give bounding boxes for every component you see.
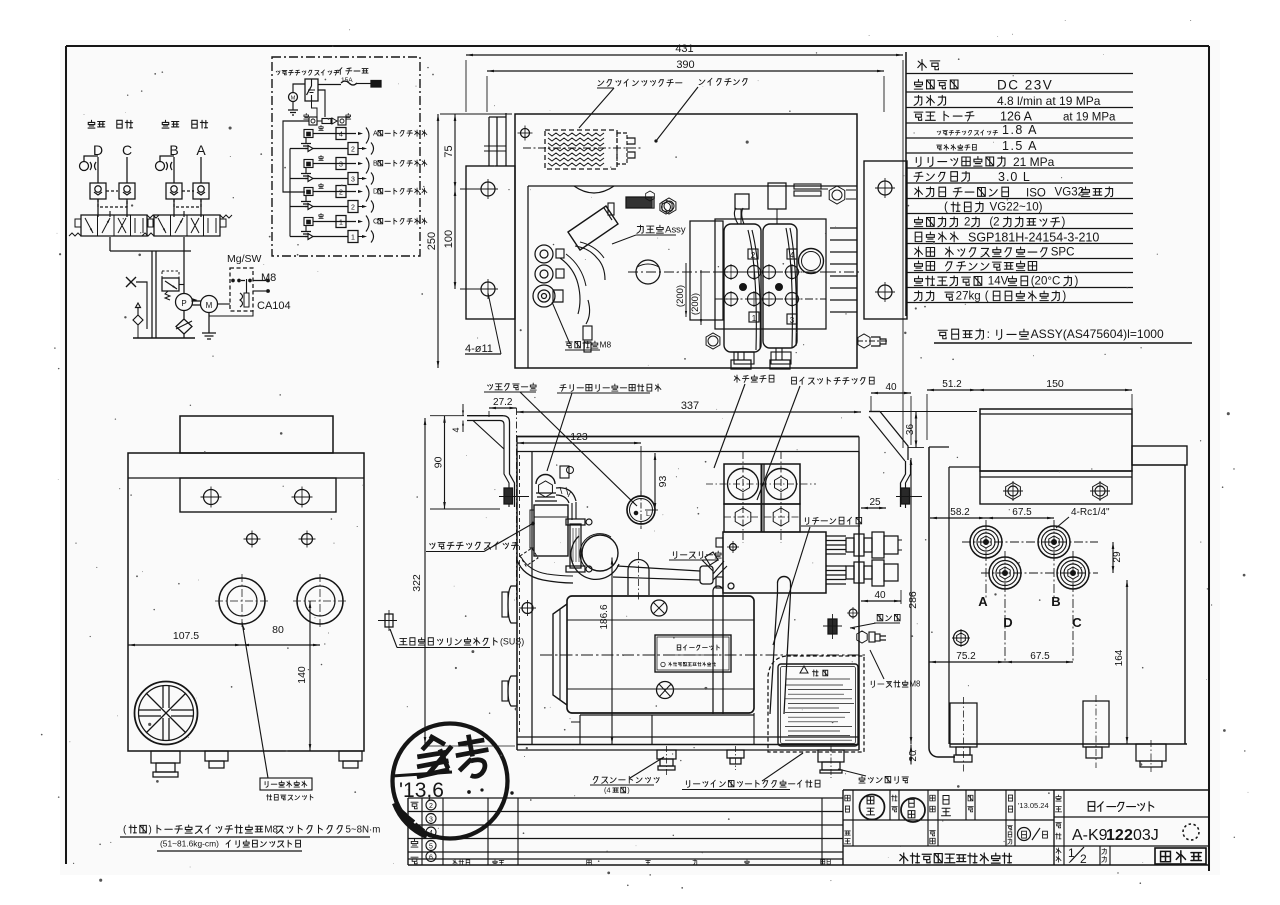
motor ground: [202, 313, 216, 340]
designer name: [942, 796, 951, 816]
revision table left labels: [411, 802, 418, 864]
label air breather: [547, 384, 661, 471]
hinge lower: [502, 676, 517, 706]
small bolt right view: [952, 629, 970, 647]
valve body 1-2 (plan): [724, 224, 761, 352]
right view top cap: [980, 409, 1132, 471]
pilot lines (dashed): [98, 191, 201, 207]
manifold block front: [705, 532, 826, 593]
drain fitting (plan right): [857, 334, 889, 348]
left plate bolt holes: [478, 179, 498, 299]
tab slots (plan bottom): [734, 352, 791, 364]
port A: [970, 526, 1002, 558]
door edge dashed: [519, 455, 521, 735]
junction row: [309, 117, 346, 125]
hose loop: [571, 534, 619, 580]
left view bracket strip: [180, 478, 336, 512]
relay rows: [290, 125, 427, 242]
company name: [900, 853, 1012, 863]
cord grommet right: [293, 574, 347, 628]
electrical labels: [276, 68, 368, 84]
wall flange bolt: [378, 610, 397, 631]
right view foot right: [1136, 740, 1166, 772]
hose lower run: [517, 557, 573, 583]
magnetic contactor switch: [293, 79, 318, 101]
dim 140: [296, 601, 330, 751]
port C: [1057, 557, 1089, 589]
caution plate dashed outline: [768, 656, 864, 752]
caution plate: [778, 664, 858, 746]
solenoid tubes (plan): [731, 183, 790, 369]
valve numbers: [748, 249, 797, 325]
left view feet: [151, 751, 362, 777]
solenoid valve block right: [142, 215, 232, 236]
dim 29: [1112, 542, 1123, 573]
right view foot middle: [1083, 695, 1109, 768]
left view small bolts: [244, 531, 316, 548]
left bus wire: [283, 121, 309, 192]
scale 1/2: [1068, 846, 1087, 866]
note text: [120, 824, 380, 851]
left mounting bracket: [467, 416, 529, 507]
terminal wires: [560, 254, 592, 352]
foot middle: [727, 746, 744, 770]
dim 250: [426, 114, 513, 368]
title block small labels: [844, 795, 1106, 862]
motor base: [571, 713, 754, 744]
pressure bus lines: [110, 237, 191, 338]
return pipe: [707, 586, 729, 714]
hoses (plan): [748, 228, 796, 350]
top view right flange plate: [864, 161, 907, 319]
dim 75.2: [929, 651, 1005, 663]
tank side ribs (plan): [830, 228, 857, 312]
electrical schematic enclosure: [272, 57, 420, 256]
hex bolt (plan): [660, 200, 672, 214]
spec table border: [905, 52, 907, 316]
tank line: [133, 334, 195, 338]
label chromate: [590, 757, 664, 794]
dim 431: [466, 43, 903, 448]
front cabinet body: [517, 452, 859, 751]
revision bottom row marks: [453, 859, 830, 865]
dim 322: [411, 418, 515, 746]
right mounting bracket: [869, 412, 922, 509]
dim 40 top right: [871, 382, 911, 445]
oil level gauge: [627, 491, 655, 529]
sanko stamp circle: [393, 724, 508, 839]
fittings top (plan): [794, 184, 856, 204]
valve drain lines: [98, 199, 201, 217]
pilot check valves: [90, 183, 209, 199]
label caution plate attach: [682, 753, 820, 790]
dim 93: [645, 453, 669, 510]
stamp eida: [901, 798, 925, 822]
label 4-Rc1/4: [1056, 507, 1110, 528]
closed port X: [126, 277, 147, 329]
dim 390: [487, 59, 884, 112]
earth cord connector: [700, 561, 727, 584]
dim 107.5: [128, 630, 242, 646]
port B: [1038, 526, 1070, 558]
label level gauge: [484, 383, 637, 506]
breather dome (plan): [574, 186, 614, 193]
tank top bolt: [518, 126, 533, 141]
hinge upper: [502, 586, 517, 623]
breather filter small: [133, 303, 143, 338]
wire to junction: [304, 90, 351, 119]
rectifier assy (plan): [568, 203, 618, 280]
motor M: [193, 296, 218, 313]
label pump: [850, 614, 900, 629]
title block frame: [843, 790, 1209, 865]
solenoid valve block left: [69, 215, 159, 236]
magnetic switch assembly: [530, 466, 574, 556]
dim 4: [451, 404, 464, 433]
top view left flange plate: [466, 113, 515, 319]
relief pilot valve B: [156, 156, 175, 171]
suction filter strainer: [176, 311, 192, 335]
dim 75: [440, 114, 512, 189]
dim 100: [443, 189, 482, 289]
gauge circle (plan): [799, 249, 824, 274]
dim 40 fittings: [861, 590, 901, 604]
sanko stamp text kou: [454, 733, 491, 778]
left view body: [128, 453, 364, 751]
drain plug foot: [818, 746, 844, 778]
Mg/SW box: [218, 253, 262, 311]
dim 58.2: [930, 507, 986, 519]
motor symbol M1: [289, 93, 298, 102]
projection method box: [1155, 848, 1206, 864]
dim 90: [430, 416, 500, 509]
dim 150: [977, 378, 1132, 442]
label kirikae valve: [714, 375, 774, 468]
earth terminal bolt: [857, 631, 886, 643]
revision table grid: [408, 790, 843, 865]
terminal M8: [241, 272, 276, 284]
label magnetic switch: [426, 522, 534, 551]
manifold pipe ribs: [826, 536, 846, 584]
front cabinet cover: [517, 437, 859, 452]
top view tank outline: [515, 114, 857, 368]
dim 286: [907, 458, 919, 744]
label cord outlet: [242, 622, 313, 800]
suction filter label: [579, 79, 682, 128]
dim 25: [861, 497, 886, 509]
sanko stamp text san: [413, 734, 454, 777]
port labels: [978, 594, 1082, 630]
label pilot check valve: [757, 377, 874, 500]
label earth cord: [669, 551, 721, 571]
level gauge tube: [566, 519, 592, 572]
right plate bolt holes: [875, 178, 895, 302]
valve mount plates (plan): [690, 219, 826, 329]
foot left: [657, 746, 676, 776]
left view top cap: [180, 416, 333, 453]
pump parts: [823, 607, 859, 639]
outlet fitting lower: [846, 560, 898, 586]
hose tail to connector: [613, 566, 700, 580]
port centerlines: [962, 520, 1098, 662]
dim 67.5 bottom: [1005, 651, 1073, 663]
drawing number: [1072, 824, 1199, 844]
(200) dims: [675, 263, 702, 325]
ground G1: [288, 102, 298, 116]
stamp smudge: [395, 803, 427, 836]
motor terminals (plan): [533, 245, 564, 307]
relief valve RV: [162, 271, 184, 300]
date: [1018, 801, 1049, 810]
label earth terminal M8: [870, 650, 921, 688]
dim 27.2: [489, 397, 517, 417]
rectifier label: [612, 224, 686, 244]
fan grommet: [135, 682, 198, 745]
cord grommet left: [215, 574, 269, 628]
right view body: [929, 446, 1187, 757]
conduit elbow: [556, 487, 576, 520]
title name: [1088, 802, 1154, 812]
label flange bolt SUS: [390, 629, 524, 648]
dim 123: [517, 431, 641, 495]
dim 164: [1114, 580, 1137, 744]
motor nameplate: [655, 635, 731, 672]
right view bracket bolts: [1003, 481, 1110, 501]
label 4-phi11: [465, 293, 501, 355]
terminal CA104: [209, 290, 291, 316]
return pipe curved: [770, 577, 791, 714]
dim 80: [242, 605, 320, 646]
dim 337: [517, 400, 862, 600]
dim 186.6: [599, 558, 613, 745]
left view bracket bolts: [201, 487, 313, 508]
valve body 3-4 (plan): [763, 224, 797, 348]
nameplate dark (plan): [626, 197, 654, 208]
right view bracket strip: [980, 471, 1132, 504]
label drain plug: [838, 769, 908, 783]
breather tube on motor: [628, 552, 649, 600]
motor body: [553, 596, 754, 713]
port D: [989, 557, 1021, 589]
dim 51.2: [880, 379, 977, 440]
oil tank label: [655, 78, 747, 142]
dim 20: [908, 745, 919, 765]
valve bolt rows (plan): [715, 264, 826, 307]
dim 36: [905, 412, 924, 448]
pump P: [176, 294, 198, 311]
revision circled numbers: [426, 800, 436, 862]
stamp miura: [860, 795, 885, 820]
power terminal label: [552, 302, 612, 350]
fuse F1: [318, 81, 381, 88]
right view foot left: [950, 697, 977, 774]
left hex bolts (plan): [646, 191, 720, 349]
suction filter (hatched): [523, 130, 641, 169]
spec table rows: [906, 60, 1133, 303]
hydraulic circuit labels: [88, 120, 208, 158]
center line (plan): [628, 260, 862, 284]
motor axis centerline: [540, 654, 868, 656]
dim 67.5 top: [986, 507, 1054, 519]
attached mark: [1018, 828, 1048, 841]
door bolt: [519, 600, 536, 616]
relief pilot valve D: [80, 156, 99, 171]
outlet fitting upper: [846, 532, 902, 558]
motor eye bolts: [651, 600, 674, 699]
valve block front: [706, 452, 816, 543]
door latch dashed: [520, 548, 538, 566]
port lines D C B A: [98, 157, 201, 183]
label return pipe: [773, 517, 862, 645]
stamp date 13.6: [399, 779, 513, 802]
stamp divider line: [392, 772, 452, 776]
attached parts note: [934, 327, 1192, 343]
